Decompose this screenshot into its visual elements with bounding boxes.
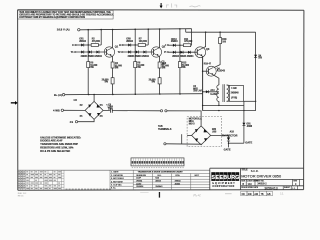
svg-text:.005: .005: [212, 131, 217, 133]
svg-text:TERMINALS: TERMINALS: [158, 128, 172, 131]
svg-text:16.8 V (A): 16.8 V (A): [57, 28, 70, 32]
bridge MDA diode arrows: [195, 129, 208, 142]
inspection stamps row: [241, 191, 273, 196]
resistor R11 470,000 collector load: [184, 44, 191, 47]
wire FYB box to right column: [243, 100, 255, 102]
wire tab to bridge MDA top: [167, 111, 201, 126]
resistor 25,000 lower emitter: [111, 78, 114, 84]
resistor R8 51,000 on feed line: [134, 62, 137, 68]
wire: bus loop left side: [185, 29, 187, 32]
transformer T1 primary winding: [217, 85, 219, 101]
svg-text:4 WB: 4 WB: [53, 108, 60, 112]
svg-text:Q3: Q3: [206, 47, 210, 51]
svg-text:GATE: GATE: [224, 147, 231, 151]
title block frame: [210, 168, 304, 190]
tab terminal pair upper: [160, 110, 162, 112]
svg-text:EQUIPMENT: EQUIPMENT: [212, 183, 235, 185]
svg-text:2N634: 2N634: [136, 181, 143, 183]
svg-text:5%: 5%: [152, 82, 155, 84]
svg-text:THYRECTOR: THYRECTOR: [222, 134, 238, 137]
svg-text:A13D: A13D: [136, 182, 142, 185]
svg-text:4. MOT ARM: 4. MOT ARM: [111, 180, 123, 183]
svg-text:SCALE NONE: SCALE NONE: [241, 186, 253, 189]
svg-text:2N3643: 2N3643: [155, 186, 163, 188]
svg-text:T1 O: T1 O: [71, 50, 77, 54]
svg-text:2N3638: 2N3638: [136, 186, 144, 188]
node dots on top bus: [87, 28, 221, 33]
svg-text:7B: 7B: [261, 193, 264, 196]
bridge PX diode arrows: [88, 104, 100, 116]
transistor Q2: [151, 47, 161, 57]
svg-text:GB: GB: [267, 193, 271, 196]
svg-text:5%: 5%: [90, 67, 93, 69]
bridge rectifier PX outline: [85, 101, 103, 119]
parts table entries: [18, 171, 61, 189]
resistor R7 100,000 collector load: [138, 44, 145, 47]
wire bridge MDA left stub: [187, 134, 192, 136]
diode G01 .0068: [242, 123, 245, 126]
transistor and diode conversion chart: [133, 170, 210, 190]
wire: bus corner drop at x=191.6: [191, 29, 193, 46]
diode string row 2: [128, 51, 131, 54]
svg-text:MOTOR DRIVER 0850: MOTOR DRIVER 0850: [241, 174, 282, 179]
general notes: [40, 136, 81, 153]
stub wire at dashed box left: [181, 134, 183, 144]
emitter wire down: [159, 56, 160, 62]
svg-text:AM: AM: [254, 193, 258, 196]
resistor R4 51,000 emitter: [111, 62, 114, 68]
svg-text:DK: DK: [242, 193, 246, 196]
size and code ident cells: [246, 179, 299, 185]
collector wire to bus: [112, 30, 113, 48]
diode CR1: [81, 44, 84, 47]
svg-text:S.C.R.: S.C.R.: [251, 169, 259, 173]
wire lower tab to bridge MDA bottom: [166, 144, 201, 145]
svg-text:1. GATE: 1. GATE: [111, 171, 119, 174]
collector wire to bus: [159, 29, 160, 48]
wire lower rail y=110.6: [203, 110, 256, 112]
scale row and drawing number: [283, 186, 297, 190]
parts table top edge: [18, 169, 210, 171]
parts list table left: [18, 170, 64, 190]
svg-text:2N634: 2N634: [171, 40, 178, 43]
wire lower rail y=105.4: [203, 104, 244, 106]
svg-text:2N3648: 2N3648: [231, 92, 240, 95]
svg-text:100,000: 100,000: [139, 41, 148, 43]
terminal 16.8V (A): [57, 28, 80, 32]
svg-text:5%: 5%: [137, 67, 140, 69]
resistor R2 470,000 collector load: [91, 44, 98, 47]
svg-text:110: 110: [248, 182, 253, 186]
notice box: [18, 10, 115, 19]
svg-text:5%: 5%: [105, 82, 108, 84]
resistor 25,000 lower emitter: [158, 78, 161, 84]
pencil bracket marks top: [167, 3, 177, 7]
wire: terminal to bridge PX left vertex: [64, 109, 86, 111]
svg-text:1 AM: 1 AM: [231, 87, 236, 90]
tab terminal lower: [164, 143, 166, 145]
svg-text:5%: 5%: [182, 67, 185, 69]
bridge rectifier MDA outline: [192, 126, 211, 145]
svg-text:5%: 5%: [162, 68, 165, 70]
resistor R5 51,000 on feed line: [87, 62, 90, 68]
transistor Q1: [104, 47, 114, 57]
svg-text:2N634 2N634 2N634: 2N634 2N634 2N634: [81, 55, 103, 58]
pencil mark 1 below border: [159, 192, 160, 198]
svg-text:HE 16: HE 16: [18, 195, 24, 197]
svg-text:4 B: 4 B: [70, 121, 74, 124]
svg-text:A14F: A14F: [136, 177, 142, 180]
svg-text:(FYB): (FYB): [231, 97, 237, 99]
svg-text:SHEET: SHEET: [284, 187, 291, 189]
collector wire Q3 to bus2: [203, 32, 206, 48]
svg-text:2N634: 2N634: [175, 181, 182, 183]
svg-text:P O: P O: [164, 50, 168, 54]
FYB load box: [229, 85, 243, 101]
svg-text:2N634: 2N634: [79, 40, 86, 43]
diode CR16 to transformer: [203, 91, 219, 93]
svg-text:34858-2: 34858-2: [257, 182, 267, 186]
resistor R10 51,000 emitter: [158, 62, 161, 68]
Q4 emitter wire to transformer: [213, 75, 219, 85]
svg-text:SEEBURG: SEEBURG: [136, 175, 146, 177]
svg-text:G: G: [235, 175, 239, 181]
node dots on B+ bus: [88, 93, 181, 95]
transformer T1 secondary winding: [227, 85, 229, 101]
wire load box corner down: [243, 101, 245, 143]
diode string row 2: [81, 51, 84, 54]
emitter wire Q3 down long rail: [202, 56, 204, 110]
svg-text:Pu+c: Pu+c: [193, 194, 201, 198]
Q4 base wire: [203, 70, 209, 72]
svg-text:3056413: 3056413: [264, 186, 277, 190]
emitter wire down: [112, 56, 113, 62]
node dots stage: [135, 44, 136, 52]
wire bridge PX right to C8: [103, 109, 110, 111]
diode CR13: [173, 44, 176, 47]
svg-text:5. 16.8 VAC: 5. 16.8 VAC: [111, 184, 122, 187]
svg-text:G.E.: G.E.: [157, 175, 161, 177]
svg-text:TITLE: TITLE: [241, 170, 248, 172]
svg-text:B+ (A): B+ (A): [54, 93, 62, 97]
svg-text:4 R: 4 R: [73, 99, 77, 102]
svg-text:5%: 5%: [115, 68, 118, 70]
pencil scribble top right: [190, 6, 201, 7]
svg-text:2N634 2N634 2N634: 2N634 2N634 2N634: [172, 55, 194, 58]
resistor R18 100: [219, 32, 221, 37]
svg-text:A13D43: A13D43: [217, 70, 226, 73]
transistor Q4: [206, 66, 216, 76]
node dots stage: [88, 44, 89, 52]
SEEBURG logo blocks: [211, 172, 215, 181]
svg-text:TRANSISTOR & DIODE CONVERSION: TRANSISTOR & DIODE CONVERSION CHART: [138, 171, 184, 174]
terminal strip connector: [131, 158, 184, 166]
svg-text:CORPORATION: CORPORATION: [212, 185, 234, 188]
svg-text:DATE: DATE: [253, 186, 258, 189]
svg-text:2N634 2N634 2N634: 2N634 2N634 2N634: [128, 55, 150, 58]
svg-text:COPYRIGHT 1968 BY SEEBURG EQUI: COPYRIGHT 1968 BY SEEBURG EQUIPMENT CORP…: [19, 16, 85, 19]
wire: B+ bus: [65, 94, 203, 95]
svg-text:2N634: 2N634: [126, 40, 133, 43]
svg-text:RX & PX ARE SELECTED: RX & PX ARE SELECTED: [40, 150, 70, 153]
strip pin numbers: [132, 167, 133, 168]
pencil arrow top: [160, 3, 163, 8]
svg-text:6. B+: 6. B+: [111, 188, 117, 190]
terminal 4 WB: [53, 108, 64, 112]
svg-text:2. CATHODE: 2. CATHODE: [111, 174, 124, 177]
signature row ticks: [66, 189, 111, 190]
svg-text:B: B: [242, 182, 244, 186]
wire bridge PX bottom to terminal 4B: [78, 119, 95, 121]
svg-text:40502: 40502: [175, 183, 181, 185]
wire primary bottom: [218, 101, 220, 105]
svg-text:25V: 25V: [108, 109, 113, 111]
terminal legend table: [110, 170, 133, 190]
svg-text:100 LAF: 100 LAF: [193, 90, 202, 93]
diode string row 2: [173, 51, 176, 54]
svg-text:962-3: 962-3: [189, 124, 196, 126]
terminal 4B: [75, 121, 77, 123]
wire: second bus to right column: [186, 31, 256, 33]
wire thyrector to gate: [228, 135, 230, 137]
svg-text:3. MOT FIELD: 3. MOT FIELD: [111, 178, 124, 180]
svg-text:.0068: .0068: [246, 126, 252, 128]
wire gate return to thyrector node: [229, 142, 244, 144]
transformer core: [222, 84, 224, 102]
svg-text:A14: A14: [210, 89, 215, 92]
wires secondary to load box: [227, 84, 230, 86]
wire C8 to tab terminal: [112, 110, 160, 112]
svg-text:470,000: 470,000: [184, 40, 193, 43]
stage Q1 feed wire from bus to B+: [87, 30, 89, 62]
diode CR8: [128, 44, 131, 47]
capacitor C8: [110, 108, 112, 113]
svg-text:RCA: RCA: [175, 174, 180, 177]
diode CR19 on right column: [254, 55, 257, 58]
svg-text:TAB: TAB: [158, 125, 163, 128]
svg-text:I O: I O: [165, 43, 168, 47]
right column wire from bus2: [255, 32, 257, 110]
svg-text:T2 O: T2 O: [118, 50, 124, 54]
wire R18 to Q4 collector: [214, 44, 220, 68]
pencil arrow left margin: [11, 101, 18, 105]
dashed outline MDA assembly: [187, 117, 222, 147]
pencil dash: [140, 192, 148, 194]
svg-text:40502: 40502: [155, 181, 161, 183]
svg-text:GATE: GATE: [245, 141, 252, 145]
wire load resistor to bus: [100, 30, 102, 45]
svg-text:MOT: MOT: [195, 175, 200, 177]
stage Q3 feed wire from bus to B+: [179, 29, 181, 62]
svg-text:R19 47: R19 47: [204, 62, 212, 65]
wire bridge MDA right to thyrector: [211, 134, 229, 136]
wire load resistor to bus: [147, 29, 149, 45]
svg-text:470,000: 470,000: [92, 40, 101, 43]
wire: top supply bus A: [80, 29, 192, 30]
stage Q2 feed wire from bus to B+: [134, 29, 136, 61]
transistor Q3: [195, 47, 206, 58]
border frame: [18, 10, 304, 191]
svg-text:24F: 24F: [248, 193, 253, 196]
resistor R13 51,000 on feed line: [178, 62, 181, 68]
svg-text:A18: A18: [230, 131, 235, 134]
wire bridge PX top to B+ bus: [93, 95, 95, 102]
terminal B+ (A): [54, 93, 65, 97]
